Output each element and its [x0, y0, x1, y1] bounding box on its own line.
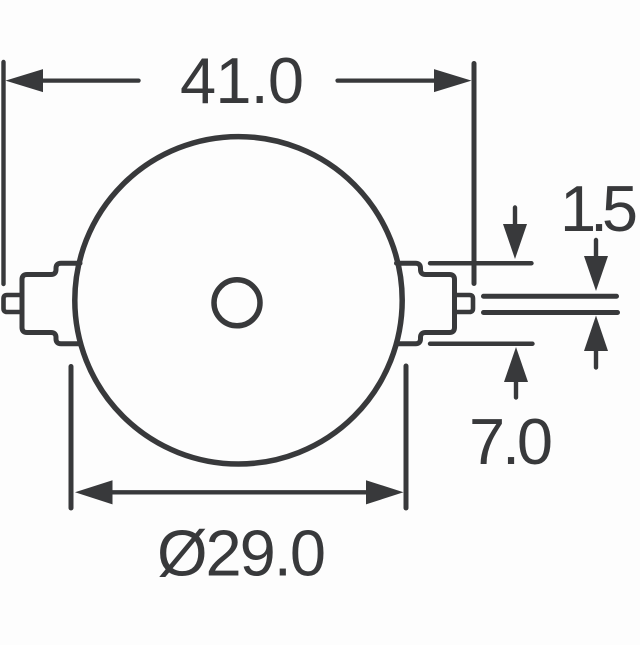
dia29 right arrowhead — [366, 480, 404, 504]
left pin — [4, 295, 23, 312]
41.0 right extension line — [472, 64, 477, 284]
1.5 up arrow shaft — [594, 349, 598, 368]
right mounting tab — [397, 263, 455, 344]
41.0 right arrowhead — [434, 69, 472, 92]
41.0 dim shaft right — [338, 78, 436, 82]
1.5 down arrowhead — [584, 256, 608, 291]
7.0 down arrowhead — [503, 224, 527, 259]
7.0 up arrow shaft — [514, 380, 518, 398]
dia29 left arrowhead — [75, 480, 113, 504]
svg-text:7.0: 7.0 — [469, 405, 553, 478]
7.0 down arrow shaft — [513, 208, 517, 227]
dia29 dim shaft — [112, 490, 366, 494]
svg-text:41.0: 41.0 — [180, 44, 304, 117]
1.5 down arrow shaft — [594, 240, 598, 258]
center hole — [214, 280, 260, 326]
41.0 dim shaft left — [42, 78, 139, 82]
lower lead line — [484, 310, 618, 315]
buzzer body circle — [75, 137, 402, 464]
1.5 up arrowhead — [584, 316, 608, 352]
41.0 left arrowhead — [6, 69, 44, 92]
svg-text:Ø29.0: Ø29.0 — [157, 517, 326, 590]
7.0 up arrowhead — [504, 347, 528, 382]
7.0 lower extension line — [430, 342, 533, 346]
svg-text:1.5: 1.5 — [560, 172, 638, 245]
left mounting tab — [22, 263, 80, 344]
7.0 upper extension line — [430, 261, 532, 265]
dia29 right extension line — [404, 366, 409, 508]
41.0 left extension line — [1, 62, 5, 284]
right pin — [455, 295, 474, 312]
dia29 left extension line — [69, 367, 74, 509]
upper lead line — [484, 294, 617, 299]
